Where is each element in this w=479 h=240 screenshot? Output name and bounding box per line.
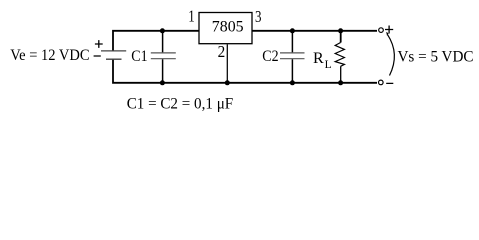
svg-text:2: 2 [218, 42, 226, 61]
svg-text:Vs = 5 VDC: Vs = 5 VDC [398, 48, 474, 65]
svg-text:3: 3 [255, 7, 262, 26]
svg-text:C1: C1 [131, 48, 147, 65]
svg-text:Ve = 12 VDC: Ve = 12 VDC [10, 47, 89, 64]
svg-text:7805: 7805 [212, 19, 244, 36]
svg-text:C2: C2 [262, 48, 278, 65]
svg-text:C1 = C2 = 0,1 μF: C1 = C2 = 0,1 μF [127, 95, 234, 112]
svg-text:R: R [313, 50, 324, 67]
svg-text:L: L [325, 59, 332, 71]
svg-text:1: 1 [188, 7, 195, 26]
